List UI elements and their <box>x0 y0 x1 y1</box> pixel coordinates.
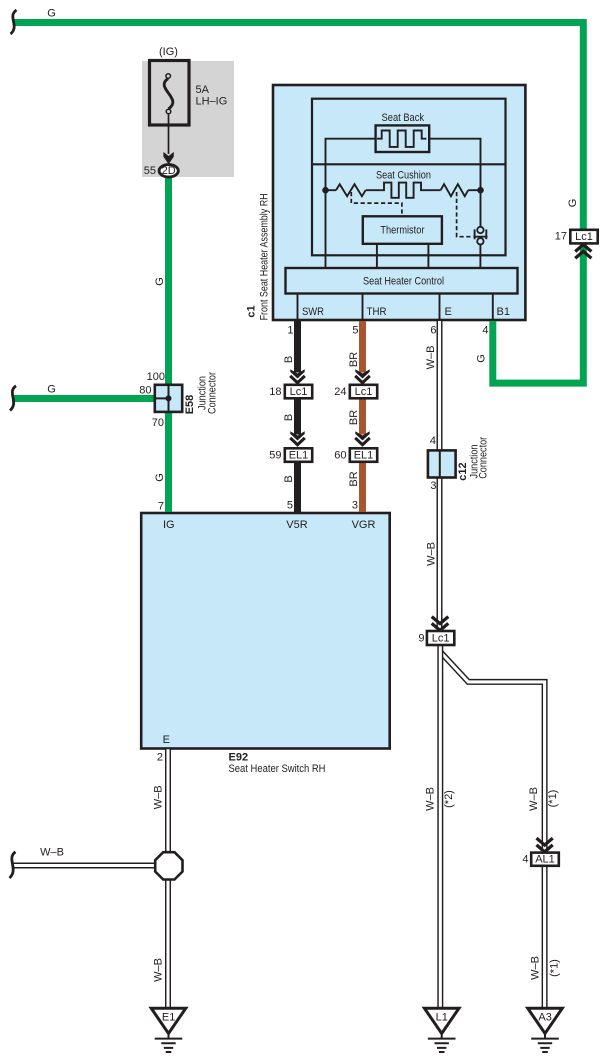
svg-text:W–B: W–B <box>529 956 541 980</box>
svg-text:4: 4 <box>482 325 488 337</box>
connector 59 EL1 <box>285 448 312 462</box>
svg-text:G: G <box>567 199 579 208</box>
wire G fuse to E92 <box>165 178 172 513</box>
svg-text:60: 60 <box>334 449 346 461</box>
E92 seat heater switch box <box>141 513 390 749</box>
svg-text:Lc1: Lc1 <box>290 386 308 398</box>
svg-text:5: 5 <box>287 500 293 512</box>
svg-text:4: 4 <box>522 854 528 866</box>
svg-text:100: 100 <box>147 371 165 383</box>
thermistor box <box>363 216 442 244</box>
arrow into 59 EL1 <box>290 431 305 444</box>
connector oval 2D <box>159 165 178 177</box>
svg-text:Seat Heater Switch RH: Seat Heater Switch RH <box>229 763 326 775</box>
connector 4 AL1 <box>531 838 559 866</box>
ground E1 <box>151 1008 186 1052</box>
svg-text:Seat Cushion: Seat Cushion <box>376 170 431 182</box>
svg-text:G: G <box>47 8 56 20</box>
arrow into 60 EL1 <box>355 431 370 444</box>
svg-text:1: 1 <box>287 325 293 337</box>
dashed link to switch <box>457 192 472 237</box>
break symbol top left <box>11 10 17 34</box>
connector 17 Lc1 <box>570 230 597 258</box>
svg-text:BR: BR <box>348 352 360 367</box>
svg-text:EL1: EL1 <box>354 450 374 462</box>
svg-text:17: 17 <box>555 231 567 243</box>
wire W-B E92 E pin to E1 <box>165 749 171 1009</box>
pin stub B1 <box>492 294 494 320</box>
svg-text:5A: 5A <box>196 84 210 96</box>
svg-text:SWR: SWR <box>302 306 324 318</box>
svg-text:E58: E58 <box>184 395 196 415</box>
splice octagon junction <box>155 852 182 879</box>
connector 18 Lc1 <box>285 385 312 399</box>
svg-text:9: 9 <box>418 632 424 644</box>
svg-text:W–B: W–B <box>528 787 540 811</box>
svg-text:G: G <box>154 277 166 286</box>
junction connector E58 box <box>155 385 182 412</box>
svg-text:Seat Back: Seat Back <box>382 112 425 124</box>
svg-text:G: G <box>47 384 56 396</box>
wire seat back left <box>326 139 376 268</box>
svg-text:BR: BR <box>348 471 360 486</box>
break symbol E58 left <box>10 386 16 411</box>
svg-text:4: 4 <box>430 435 436 447</box>
wire seat back right <box>429 139 480 227</box>
svg-text:Connector: Connector <box>207 372 219 414</box>
wire W-B branch to AL1/A3 <box>441 653 545 1010</box>
svg-text:Connector: Connector <box>478 437 490 479</box>
ground A3 <box>528 1008 563 1052</box>
svg-text:W–B: W–B <box>152 958 164 982</box>
svg-text:Front Seat Heater Assembly RH: Front Seat Heater Assembly RH <box>259 193 271 320</box>
wire W-B break branch left <box>12 863 168 869</box>
svg-text:2D: 2D <box>162 165 176 177</box>
svg-text:6: 6 <box>430 325 436 337</box>
wire W-B 9Lc1 to L1 <box>437 645 443 1009</box>
resistor left (seat cushion) <box>336 184 366 196</box>
svg-text:LH–IG: LH–IG <box>196 96 228 108</box>
svg-text:Lc1: Lc1 <box>432 632 450 644</box>
wire thermistor to control <box>377 244 429 268</box>
pin stub SWR <box>297 294 299 320</box>
fuse holder gray block <box>142 61 234 177</box>
front seat heater assembly RH box c1 <box>273 85 525 320</box>
seat cushion heater element <box>381 183 424 198</box>
svg-text:G: G <box>154 473 166 482</box>
svg-text:E1: E1 <box>162 1011 175 1023</box>
break symbol bottom left <box>10 852 16 878</box>
svg-text:7: 7 <box>158 501 164 513</box>
svg-text:B1: B1 <box>497 306 510 318</box>
svg-text:V5R: V5R <box>286 519 307 531</box>
wire BR THR drop <box>359 321 366 512</box>
svg-text:W–B: W–B <box>40 847 64 859</box>
connector 24 Lc1 <box>350 385 377 399</box>
wire B SWR drop <box>294 321 301 512</box>
svg-text:IG: IG <box>163 519 175 531</box>
wire switch to control <box>479 244 481 268</box>
svg-text:59: 59 <box>269 449 281 461</box>
divider line between seat back and seat cushion <box>312 163 506 165</box>
svg-text:L1: L1 <box>436 1011 448 1023</box>
junction dot left <box>322 187 329 194</box>
svg-text:B: B <box>283 414 295 421</box>
svg-text:(*1): (*1) <box>547 790 559 808</box>
arrow into 18 Lc1 <box>290 369 305 382</box>
svg-text:E92: E92 <box>229 751 249 763</box>
resistor right (seat cushion) <box>441 184 469 196</box>
svg-text:(IG): (IG) <box>159 46 178 58</box>
svg-text:W–B: W–B <box>426 542 438 566</box>
svg-text:70: 70 <box>152 417 164 429</box>
svg-text:(*2): (*2) <box>443 790 455 808</box>
seat heater control bar <box>286 268 518 294</box>
svg-text:5: 5 <box>352 325 358 337</box>
svg-text:18: 18 <box>269 386 281 398</box>
svg-text:3: 3 <box>352 500 358 512</box>
svg-text:Lc1: Lc1 <box>575 231 593 243</box>
svg-text:Lc1: Lc1 <box>355 386 373 398</box>
junction dot right <box>477 187 484 194</box>
wire seat cushion row <box>326 189 481 191</box>
wire W-B E pin drop <box>437 321 443 631</box>
wire G E58 branch left <box>12 395 156 402</box>
svg-text:B: B <box>283 475 295 482</box>
connector 9 Lc1 <box>427 617 454 645</box>
pin stub E <box>439 294 441 320</box>
svg-text:AL1: AL1 <box>535 854 555 866</box>
ground L1 <box>424 1008 459 1052</box>
svg-text:80: 80 <box>139 385 151 397</box>
svg-text:BR: BR <box>348 410 360 425</box>
svg-text:c1: c1 <box>246 305 258 317</box>
svg-text:W–B: W–B <box>425 787 437 811</box>
svg-text:W–B: W–B <box>152 785 164 809</box>
svg-text:c12: c12 <box>457 462 469 480</box>
thermostat switch <box>473 227 487 245</box>
fuse 5A LH-IG <box>150 61 190 155</box>
svg-text:VGR: VGR <box>352 519 376 531</box>
connector 60 EL1 <box>350 448 377 462</box>
svg-text:E: E <box>445 306 452 318</box>
svg-text:3: 3 <box>430 480 436 492</box>
svg-text:2: 2 <box>157 751 163 763</box>
svg-text:EL1: EL1 <box>289 450 309 462</box>
svg-text:THR: THR <box>367 306 387 318</box>
wire G main loop (top + right + B1 return) <box>13 23 583 384</box>
svg-text:24: 24 <box>334 386 346 398</box>
inner sub-box of heater assembly <box>312 99 506 256</box>
svg-text:Thermistor: Thermistor <box>380 225 424 237</box>
seat back heater element <box>376 125 430 152</box>
pin stub THR <box>362 294 364 320</box>
svg-text:G: G <box>475 354 487 363</box>
dashed link to thermistor <box>351 192 402 216</box>
svg-text:(*1): (*1) <box>548 959 560 977</box>
svg-text:Seat Heater Control: Seat Heater Control <box>363 275 444 287</box>
svg-text:B: B <box>283 356 295 363</box>
junction connector c12 <box>428 450 456 477</box>
svg-text:55: 55 <box>144 165 156 177</box>
arrow into 2D <box>163 152 173 164</box>
svg-text:W–B: W–B <box>425 346 437 370</box>
svg-text:E: E <box>163 734 170 746</box>
arrow into 24 Lc1 <box>355 369 370 382</box>
svg-text:A3: A3 <box>538 1011 551 1023</box>
